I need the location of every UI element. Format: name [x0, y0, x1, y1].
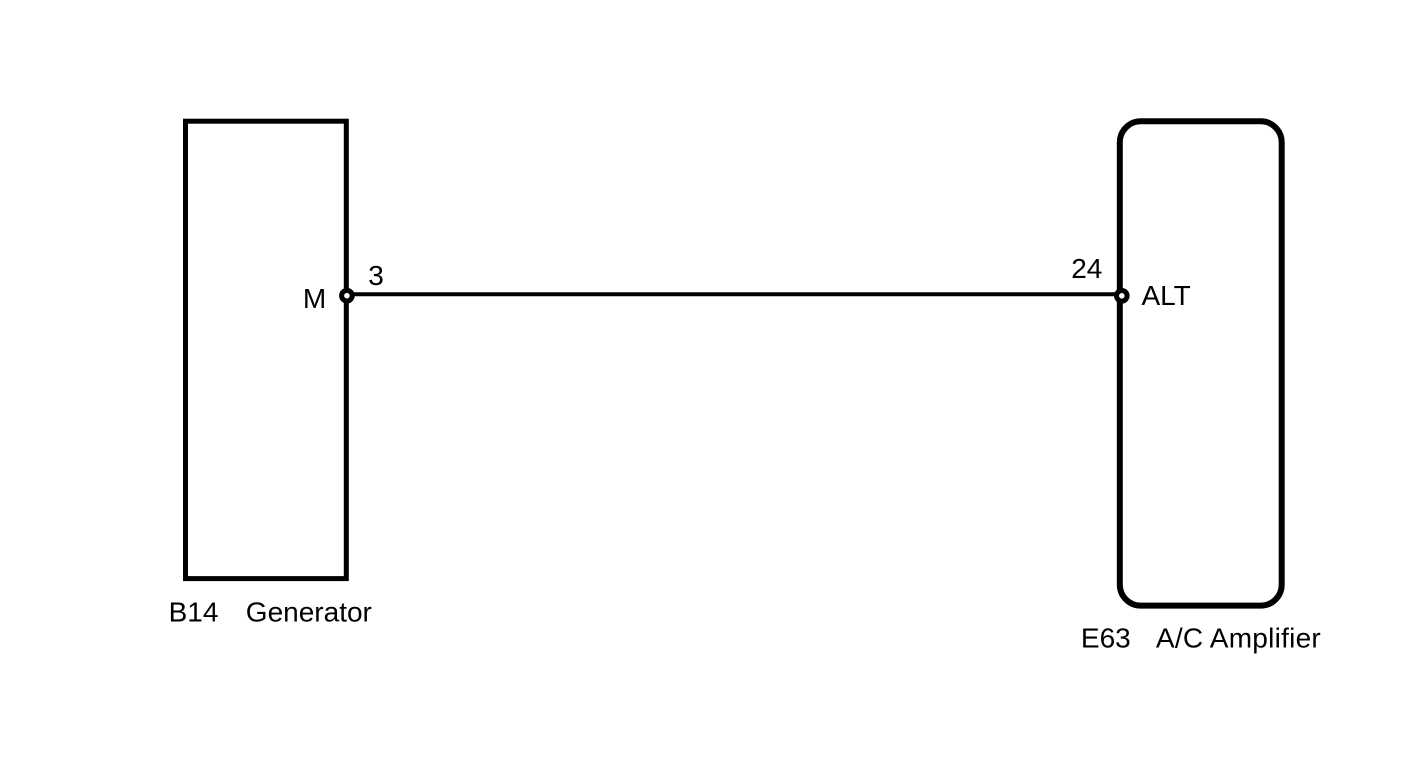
terminal node pin 3 (open circle on B14): [342, 290, 353, 301]
terminal node pin 24 (open circle on E63): [1117, 291, 1128, 302]
svg-text:ALT: ALT: [1142, 280, 1191, 311]
svg-text:E63: E63: [1081, 623, 1131, 654]
svg-text:M: M: [303, 283, 326, 314]
svg-text:24: 24: [1071, 253, 1102, 284]
connector block B14 (Generator): [186, 121, 347, 578]
svg-text:3: 3: [368, 260, 384, 291]
svg-text:A/C Amplifier: A/C Amplifier: [1156, 623, 1321, 654]
wire 3-to-24: [347, 292, 1122, 296]
svg-text:Generator: Generator: [246, 596, 372, 627]
svg-text:B14: B14: [169, 596, 219, 627]
connector block E63 (A/C Amplifier): [1120, 121, 1282, 605]
